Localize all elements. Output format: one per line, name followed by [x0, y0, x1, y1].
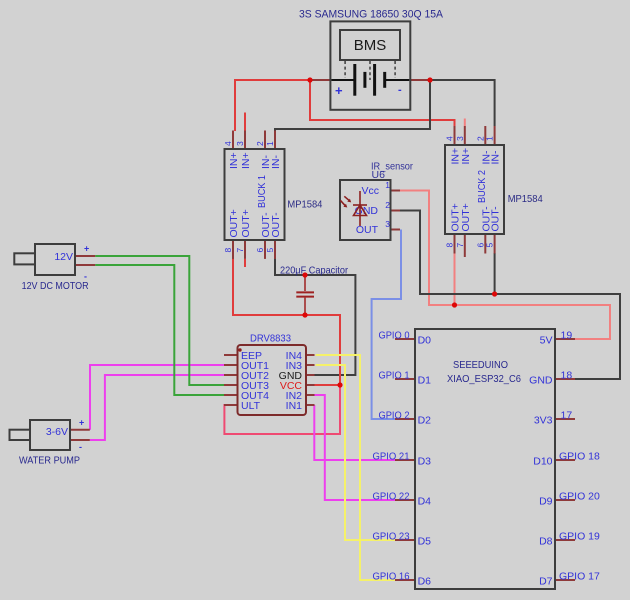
MCU right pin stubs [555, 338, 575, 340]
svg-text:12V DC MOTOR: 12V DC MOTOR [22, 280, 89, 292]
wire DRV IN2 to MCU D4 (magenta) [315, 395, 396, 500]
svg-text:GPIO 20: GPIO 20 [559, 491, 600, 503]
svg-text:WATER PUMP: WATER PUMP [19, 455, 80, 467]
DRV8833 right pin stubs [306, 354, 315, 356]
svg-text:3: 3 [455, 136, 465, 141]
BUCK1 pin7 red stub [244, 259, 246, 267]
svg-text:7: 7 [235, 248, 245, 253]
svg-text:12V: 12V [54, 251, 73, 263]
IR sensor pin labels [355, 185, 379, 236]
capacitor C1 symbol [296, 276, 314, 314]
svg-text:2: 2 [255, 141, 265, 146]
svg-text:1: 1 [385, 180, 390, 190]
svg-text:2: 2 [385, 200, 390, 210]
pump P1 box [30, 420, 70, 450]
BUCK1 pin numbers [223, 141, 275, 253]
MCU left pin labels [418, 335, 432, 588]
svg-text:D9: D9 [539, 496, 553, 508]
svg-text:Vcc: Vcc [361, 185, 379, 197]
svg-text:SEEEDUINO: SEEEDUINO [453, 359, 508, 371]
svg-text:1: 1 [265, 141, 275, 146]
pump P1 shaft [10, 430, 31, 440]
MCU left GPIO net labels [373, 330, 410, 583]
svg-text:D1: D1 [418, 375, 432, 387]
svg-text:BUCK 1: BUCK 1 [256, 175, 268, 208]
svg-text:GPIO 19: GPIO 19 [559, 531, 600, 543]
svg-text:4: 4 [223, 141, 233, 146]
IR photodiode arrowheads [347, 199, 351, 203]
wire DRV IN4 to MCU D6 (yellow) [316, 355, 395, 580]
svg-text:IN1: IN1 [286, 400, 303, 412]
svg-text:GPIO 18: GPIO 18 [559, 451, 600, 463]
svg-text:3S SAMSUNG 18650 30Q 15A: 3S SAMSUNG 18650 30Q 15A [299, 9, 444, 21]
svg-text:+: + [79, 418, 84, 428]
wire battery- rail to BUCK1 IN- and BUCK2 IN- (dark gray) [275, 80, 495, 131]
wire DRV IN3 to MCU D5 (yellow) [316, 365, 395, 540]
wire pump + to DRV OUT1 (magenta) [90, 365, 224, 430]
BUCK2 pin labels [450, 148, 502, 232]
svg-text:IN+: IN+ [460, 148, 472, 165]
BUCK2 pin stubs top 4,3,2,1 [454, 126, 456, 144]
wire IR OUT to MCU D2 (blue) [372, 230, 401, 420]
svg-text:IN-: IN- [270, 155, 282, 170]
buck converter BUCK2 box [445, 145, 504, 234]
MCU U1 SEEEDUINO XIAO box [415, 329, 555, 589]
svg-text:GPIO 21: GPIO 21 [373, 451, 410, 463]
svg-text:+: + [335, 83, 343, 98]
junction node 5V net [452, 302, 457, 307]
svg-text:D7: D7 [539, 576, 553, 588]
svg-text:OUT-: OUT- [270, 212, 282, 238]
svg-text:3V3: 3V3 [534, 415, 553, 427]
svg-text:ULT: ULT [241, 400, 261, 412]
wire VCC junction to DRV8833 ULT loop (crimson) [224, 386, 340, 434]
motor driver U2 DRV8833 box [238, 345, 307, 415]
svg-text:+: + [84, 244, 89, 254]
svg-text:BUCK 2: BUCK 2 [476, 170, 488, 203]
svg-text:8: 8 [223, 248, 233, 253]
DRV8833 pin1 dot [238, 348, 241, 351]
svg-text:GND: GND [529, 375, 553, 387]
svg-text:220μF Capacitor: 220μF Capacitor [280, 265, 348, 277]
svg-text:6: 6 [255, 248, 265, 253]
wire battery+ rail to BUCK1 IN+ and BUCK2 IN+ (red) [235, 80, 455, 131]
svg-text:19: 19 [561, 330, 573, 342]
junction node VCC [337, 382, 342, 387]
BMS dashed leads [345, 61, 395, 80]
wire IR GND / BUCK2 OUT- / MCU GND (dark gray) [400, 211, 620, 380]
motor M1 shaft [14, 253, 35, 264]
svg-text:GPIO 1: GPIO 1 [379, 370, 410, 382]
svg-text:7: 7 [455, 243, 465, 248]
svg-text:MP1584: MP1584 [508, 193, 543, 205]
svg-text:XIAO_ESP32_C6: XIAO_ESP32_C6 [447, 373, 521, 385]
junction node cap top [302, 272, 307, 277]
pump pin stubs [70, 429, 90, 431]
BUCK2 pin stubs bottom 8,7,6,5 [454, 235, 456, 254]
PIN STUBS (maroon) [70, 80, 575, 580]
svg-text:GPIO 17: GPIO 17 [559, 571, 600, 583]
svg-text:4: 4 [445, 136, 455, 141]
svg-text:OUT+: OUT+ [240, 209, 252, 237]
svg-text:GPIO 2: GPIO 2 [379, 410, 410, 422]
DRV8833 left pin labels [241, 350, 269, 412]
svg-text:D8: D8 [539, 536, 553, 548]
svg-text:18: 18 [561, 370, 573, 382]
svg-text:GPIO 16: GPIO 16 [373, 571, 410, 583]
junction node GND net [492, 291, 497, 296]
svg-text:OUT+: OUT+ [460, 203, 472, 231]
BUCK1 pin stubs top 4,3,2,1 [232, 131, 234, 149]
svg-text:BMS: BMS [354, 37, 387, 54]
wire IR Vcc / BUCK2 OUT+ / MCU 5V (salmon) [400, 191, 610, 340]
svg-text:5: 5 [485, 243, 495, 248]
motor pin stubs [75, 255, 95, 257]
junction node battery- [427, 77, 432, 82]
IR sensor pin numbers [385, 180, 390, 229]
svg-text:MP1584: MP1584 [287, 199, 322, 211]
svg-text:3: 3 [235, 141, 245, 146]
IR sensor U6 box [340, 180, 391, 240]
battery B1 outer box [330, 21, 410, 109]
BUCK1 pin labels IN+/IN- [228, 152, 282, 237]
MCU right pin numbers 19 18 17 [561, 330, 573, 422]
wire motor + to DRV OUT3 (green) [95, 256, 224, 385]
svg-text:D5: D5 [418, 536, 432, 548]
battery cells [331, 64, 409, 96]
MCU left pin stubs D0-D6 [395, 338, 415, 340]
svg-text:5: 5 [265, 248, 275, 253]
wire motor - to DRV OUT4 (green) [95, 265, 224, 395]
svg-text:3-6V: 3-6V [46, 426, 68, 438]
svg-text:D0: D0 [418, 335, 432, 347]
motor M1 box [35, 244, 75, 275]
svg-text:17: 17 [561, 410, 573, 422]
BUCK2 pin3 salmon stub [464, 119, 466, 127]
wire BUCK1 OUT- to capacitor to DRV8833 GND (dark gray) [275, 258, 355, 375]
DRV8833 left pin stubs [224, 354, 238, 356]
svg-text:DRV8833: DRV8833 [250, 333, 291, 345]
svg-text:-: - [398, 84, 402, 96]
svg-text:GPIO 22: GPIO 22 [373, 491, 410, 503]
BUCK1 pin stubs bottom 8,7,6,5 [232, 241, 234, 259]
svg-text:1: 1 [485, 136, 495, 141]
svg-text:D2: D2 [418, 415, 432, 427]
svg-text:GPIO 0: GPIO 0 [379, 330, 410, 342]
svg-text:D6: D6 [418, 576, 432, 588]
MCU right pin labels [529, 335, 553, 588]
BUCK1 pin3 red stub [244, 113, 246, 131]
svg-text:8: 8 [445, 243, 455, 248]
BUCK2 pin numbers [445, 136, 495, 248]
DRV8833 right pin labels [279, 350, 303, 412]
svg-text:3: 3 [385, 219, 390, 229]
svg-text:U6: U6 [372, 169, 386, 181]
wire DRV IN1 to MCU D3 (magenta) [314, 405, 395, 460]
BUCK2 pin7 maroon stub ext [464, 254, 466, 258]
IR sensor photodiode symbol [340, 191, 367, 226]
svg-text:IN+: IN+ [228, 152, 240, 169]
junction node battery+ [307, 77, 312, 82]
svg-text:D4: D4 [418, 496, 432, 508]
svg-text:5V: 5V [540, 335, 553, 347]
svg-text:IN-: IN- [490, 150, 502, 165]
svg-text:D10: D10 [533, 456, 552, 468]
buck converter U? BUCK1 box [225, 149, 285, 240]
svg-text:-: - [79, 442, 82, 452]
svg-text:IN+: IN+ [240, 152, 252, 169]
svg-text:OUT-: OUT- [490, 206, 502, 232]
MCU right GPIO net labels [559, 451, 600, 583]
wire pump - to DRV OUT2 (magenta) [90, 375, 225, 440]
junction node cap bottom [302, 312, 307, 317]
svg-text:D3: D3 [418, 456, 432, 468]
wire BUCK1 OUT+ to DRV8833 VCC (red) [233, 258, 340, 385]
BMS box [340, 30, 400, 60]
IR sensor pin stubs 1,2,3 [391, 190, 401, 192]
svg-text:OUT+: OUT+ [228, 209, 240, 237]
battery terminal stubs [310, 79, 330, 81]
svg-text:GPIO 23: GPIO 23 [373, 531, 410, 543]
